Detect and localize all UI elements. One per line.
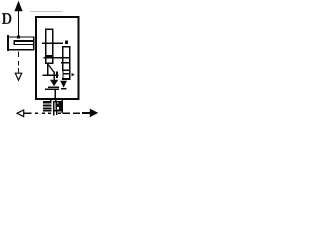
rect2: second shaft column [63,47,70,70]
piston bar in rect1 [45,55,53,58]
ladder cell below rect2 [62,70,64,79]
cylinder top wall [8,36,35,38]
support base line A [48,86,59,88]
dashed arrow down (return motion) [18,52,20,73]
piston rod left cap [13,40,15,45]
dashed feed line [35,112,80,114]
contact bar [56,72,58,79]
arrow left (hollow, feed return) [17,110,24,117]
arrow right (filled, working feed) [82,112,90,114]
rect1: gear shaft column [46,29,53,63]
wire: L drop line right [61,98,63,113]
label D (spindle drive motion) [2,13,11,24]
cylinder bottom wall [8,49,35,51]
cylinder (left element) thick end plate [7,35,9,51]
switch lower leg [53,71,55,79]
wire: lower cross line [42,74,58,76]
wire: middle cross line [44,57,70,59]
node junction dot [17,36,20,39]
switch leg vertical [47,63,49,75]
slide block hatched part [43,101,52,111]
pointer arrow on ladder [72,73,75,77]
slide block legs [53,111,55,115]
switch blade diagonal [48,65,54,73]
wire: rect2 lower tick [61,62,70,64]
box: power head housing [36,17,79,99]
base line under A [45,88,59,90]
support triangle A (filled) [50,80,58,87]
node dot on shaft 2 [65,40,68,43]
piston rod lower line [14,44,34,46]
support triangle B (filled) [60,81,67,88]
cylinder right cap [33,36,35,50]
arrow up (main motion, filled head) [14,1,22,12]
slide block right part [53,101,61,112]
piston rod upper line [14,40,34,42]
wires: box bottom to slide block [50,98,52,101]
wire: upper cross line [42,42,63,44]
support base line B [61,88,67,90]
wire: stem to box bottom [54,89,56,98]
faint scan line [30,11,62,13]
